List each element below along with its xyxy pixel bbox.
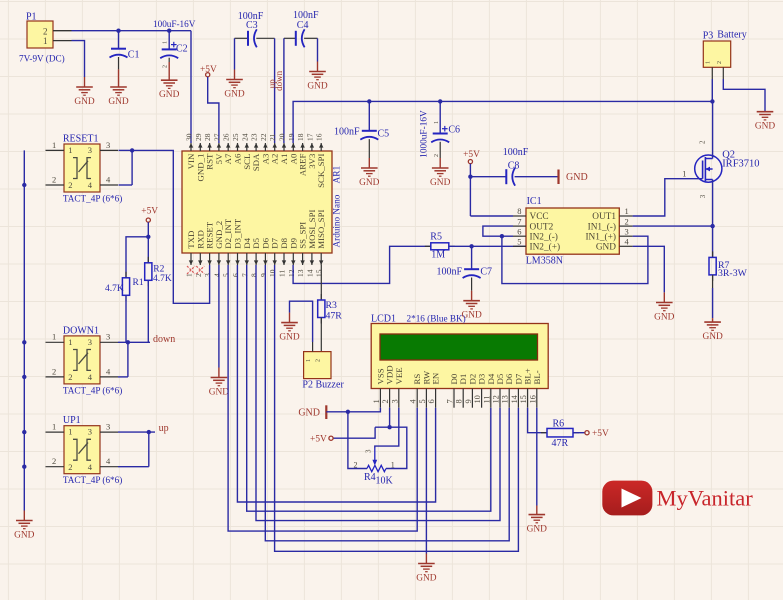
svg-text:VCC: VCC [530, 212, 549, 222]
svg-text:2: 2 [354, 461, 358, 470]
svg-text:GND: GND [755, 122, 776, 132]
svg-text:4: 4 [88, 372, 93, 382]
svg-text:IN2_(+): IN2_(+) [530, 242, 561, 253]
svg-text:22: 22 [259, 133, 268, 141]
svg-text:VEE: VEE [394, 367, 404, 384]
svg-text:+5V: +5V [592, 429, 609, 439]
svg-text:GND: GND [224, 89, 245, 99]
svg-text:2: 2 [68, 180, 72, 190]
svg-text:GND: GND [416, 573, 437, 583]
svg-text:C2: C2 [176, 44, 188, 55]
svg-text:15: 15 [519, 395, 528, 403]
svg-text:2: 2 [316, 359, 322, 362]
svg-text:23: 23 [250, 133, 259, 141]
svg-text:8: 8 [455, 399, 464, 403]
svg-text:C5: C5 [378, 129, 390, 140]
svg-text:P3: P3 [703, 31, 714, 42]
svg-text:C1: C1 [128, 50, 140, 61]
svg-text:3: 3 [88, 427, 92, 437]
svg-text:3R-3W: 3R-3W [718, 268, 748, 279]
svg-text:24: 24 [240, 133, 249, 141]
svg-text:1: 1 [43, 36, 48, 46]
svg-text:11: 11 [278, 270, 287, 277]
svg-text:C6: C6 [448, 125, 460, 136]
svg-text:P1: P1 [26, 12, 37, 23]
svg-text:3: 3 [625, 226, 629, 236]
svg-text:2*16 (Blue BK): 2*16 (Blue BK) [407, 314, 466, 324]
svg-text:LCD1: LCD1 [371, 314, 396, 325]
svg-text:1: 1 [163, 41, 169, 44]
svg-text:100nF: 100nF [436, 266, 462, 277]
svg-text:R5: R5 [430, 232, 442, 243]
svg-text:GND: GND [307, 81, 328, 91]
svg-text:GND: GND [430, 178, 451, 188]
svg-text:GND: GND [209, 387, 230, 397]
svg-text:GND: GND [596, 243, 616, 253]
svg-text:1: 1 [52, 140, 56, 150]
svg-text:6: 6 [517, 226, 521, 236]
svg-text:14: 14 [305, 269, 314, 277]
svg-text:5: 5 [418, 399, 427, 403]
svg-text:2: 2 [52, 456, 56, 466]
svg-text:4: 4 [88, 180, 93, 190]
svg-text:IC1: IC1 [527, 196, 542, 207]
svg-text:6: 6 [231, 273, 240, 277]
svg-text:16: 16 [315, 133, 324, 141]
svg-text:GND: GND [279, 332, 300, 342]
svg-text:25: 25 [231, 133, 240, 141]
svg-text:2: 2 [381, 399, 390, 403]
svg-text:3: 3 [88, 337, 92, 347]
svg-text:R4: R4 [364, 472, 376, 483]
svg-text:up: up [159, 423, 169, 434]
svg-text:SCK_SPI: SCK_SPI [316, 154, 326, 188]
svg-text:100nF: 100nF [503, 147, 529, 158]
svg-text:3: 3 [88, 145, 92, 155]
svg-text:1: 1 [682, 169, 686, 179]
svg-text:EN: EN [431, 372, 441, 384]
svg-text:BL-: BL- [532, 370, 542, 384]
svg-text:R3: R3 [326, 300, 338, 311]
svg-text:2: 2 [68, 462, 72, 472]
svg-text:12: 12 [492, 395, 501, 403]
svg-text:10: 10 [268, 269, 277, 277]
svg-text:1: 1 [391, 461, 395, 470]
svg-text:28: 28 [203, 133, 212, 141]
svg-text:1: 1 [372, 399, 381, 403]
svg-text:AR1: AR1 [333, 165, 343, 183]
svg-text:UP1: UP1 [63, 415, 81, 426]
svg-text:+5V: +5V [200, 65, 217, 75]
svg-text:47R: 47R [326, 311, 343, 322]
svg-text:2: 2 [717, 61, 723, 64]
svg-text:C4: C4 [297, 20, 309, 31]
svg-text:3: 3 [106, 422, 110, 432]
svg-text:5: 5 [517, 237, 521, 247]
svg-text:1: 1 [625, 206, 629, 216]
svg-text:GND: GND [159, 90, 180, 100]
svg-text:MISO_SPI: MISO_SPI [316, 210, 326, 249]
svg-text:1: 1 [52, 422, 56, 432]
svg-text:15: 15 [315, 269, 324, 277]
svg-text:TACT_4P (6*6): TACT_4P (6*6) [63, 475, 122, 485]
svg-text:3: 3 [106, 140, 110, 150]
svg-text:down: down [153, 334, 175, 345]
svg-text:8: 8 [250, 273, 259, 277]
svg-text:1: 1 [68, 427, 72, 437]
svg-text:DOWN1: DOWN1 [63, 325, 99, 336]
svg-text:2: 2 [52, 174, 56, 184]
svg-text:IRF3710: IRF3710 [722, 159, 759, 170]
svg-text:GND: GND [298, 408, 320, 419]
svg-text:3: 3 [365, 449, 373, 453]
svg-text:16: 16 [528, 395, 537, 403]
svg-text:2: 2 [68, 372, 72, 382]
svg-text:TACT_4P (6*6): TACT_4P (6*6) [63, 385, 122, 395]
svg-text:5: 5 [222, 273, 231, 277]
svg-text:+5V: +5V [141, 207, 158, 217]
svg-text:IN1_(+): IN1_(+) [585, 231, 616, 242]
svg-text:GND: GND [359, 178, 380, 188]
svg-text:+5V: +5V [310, 435, 327, 445]
svg-text:21: 21 [268, 133, 277, 141]
svg-text:4.7K: 4.7K [153, 274, 172, 284]
svg-text:1000uF-16V: 1000uF-16V [420, 110, 430, 158]
svg-text:1: 1 [52, 332, 56, 342]
svg-text:7: 7 [517, 216, 521, 226]
svg-text:MyVanitar: MyVanitar [657, 486, 754, 511]
svg-text:9: 9 [259, 273, 268, 277]
svg-text:2: 2 [52, 366, 56, 376]
svg-text:OUT1: OUT1 [592, 212, 616, 222]
svg-text:2: 2 [434, 154, 440, 157]
svg-text:1: 1 [434, 121, 440, 124]
svg-text:3: 3 [106, 332, 110, 342]
svg-text:+5V: +5V [463, 150, 480, 160]
svg-text:Battery: Battery [717, 30, 746, 41]
svg-text:GND: GND [74, 97, 95, 107]
svg-text:1: 1 [306, 359, 312, 362]
svg-text:3: 3 [699, 194, 707, 198]
svg-text:7V-9V (DC): 7V-9V (DC) [19, 54, 65, 64]
svg-text:29: 29 [194, 133, 203, 141]
svg-text:14: 14 [510, 394, 519, 403]
svg-text:7: 7 [446, 399, 455, 403]
svg-text:R1: R1 [133, 278, 144, 288]
svg-text:4: 4 [88, 462, 93, 472]
svg-text:2: 2 [43, 27, 48, 37]
svg-text:GND: GND [702, 332, 723, 342]
svg-text:100uF-16V: 100uF-16V [153, 19, 196, 29]
svg-text:9: 9 [464, 399, 473, 403]
svg-text:R6: R6 [553, 419, 565, 430]
svg-text:TACT_4P (6*6): TACT_4P (6*6) [63, 194, 122, 204]
svg-text:down: down [274, 70, 284, 90]
svg-text:GND: GND [566, 172, 588, 183]
svg-text:13: 13 [501, 395, 510, 403]
svg-text:GND: GND [654, 312, 675, 322]
svg-text:1: 1 [706, 61, 712, 64]
svg-text:12: 12 [287, 269, 296, 277]
svg-text:1M: 1M [431, 249, 445, 260]
svg-text:C7: C7 [480, 266, 492, 277]
svg-text:6: 6 [427, 399, 436, 403]
svg-text:11: 11 [482, 395, 491, 403]
svg-text:1: 1 [68, 337, 72, 347]
svg-text:IN2_(-): IN2_(-) [530, 231, 558, 242]
svg-text:GND: GND [108, 97, 129, 107]
svg-text:2: 2 [163, 65, 169, 68]
svg-text:RESET1: RESET1 [63, 134, 99, 145]
svg-text:8: 8 [517, 206, 521, 216]
svg-text:30: 30 [185, 133, 194, 141]
svg-text:1: 1 [68, 145, 72, 155]
svg-text:4.7K: 4.7K [105, 284, 124, 294]
svg-text:3: 3 [390, 399, 399, 403]
svg-text:4: 4 [212, 273, 221, 277]
svg-text:P2 Buzzer: P2 Buzzer [302, 380, 344, 391]
svg-text:2: 2 [699, 140, 707, 144]
svg-text:18: 18 [296, 133, 305, 141]
svg-text:10K: 10K [376, 475, 394, 486]
svg-text:2: 2 [625, 216, 629, 226]
svg-text:7: 7 [240, 273, 249, 277]
svg-text:GND: GND [527, 524, 548, 534]
svg-text:26: 26 [222, 133, 231, 141]
svg-text:13: 13 [296, 269, 305, 277]
svg-text:10: 10 [473, 395, 482, 403]
svg-text:27: 27 [212, 133, 221, 141]
svg-text:100nF: 100nF [334, 126, 360, 137]
svg-text:GND: GND [14, 530, 35, 540]
svg-text:IN1_(-): IN1_(-) [588, 221, 616, 232]
svg-text:C8: C8 [508, 160, 520, 171]
svg-text:R2: R2 [153, 264, 164, 274]
svg-text:Arduino Nano: Arduino Nano [331, 194, 341, 247]
svg-text:LM358N: LM358N [526, 256, 563, 267]
svg-text:OUT2: OUT2 [530, 222, 554, 232]
svg-text:19: 19 [287, 133, 296, 141]
svg-text:17: 17 [305, 133, 314, 141]
svg-text:47R: 47R [552, 438, 569, 449]
svg-text:20: 20 [278, 133, 287, 141]
svg-text:1: 1 [185, 273, 194, 277]
